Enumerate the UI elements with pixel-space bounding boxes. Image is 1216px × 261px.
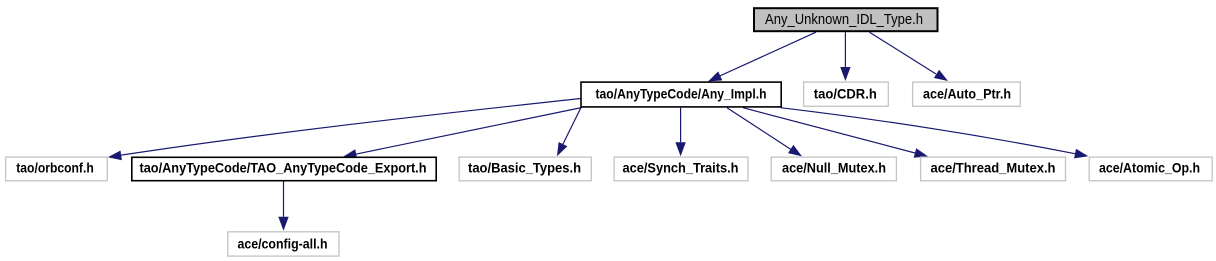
node ace/Auto_Ptr.h xyxy=(913,82,1021,106)
svg-text:tao/Basic_Types.h: tao/Basic_Types.h xyxy=(468,160,581,176)
svg-text:ace/Auto_Ptr.h: ace/Auto_Ptr.h xyxy=(923,86,1011,102)
node tao/AnyTypeCode/Any_Impl.h xyxy=(581,82,781,107)
svg-text:tao/AnyTypeCode/TAO_AnyTypeCod: tao/AnyTypeCode/TAO_AnyTypeCode_Export.h xyxy=(140,160,427,176)
svg-text:tao/orbconf.h: tao/orbconf.h xyxy=(16,160,94,176)
svg-text:tao/CDR.h: tao/CDR.h xyxy=(814,86,877,102)
wire edge Any_Impl to ace/Synch_Traits.h xyxy=(680,108,682,143)
node ace/Null_Mutex.h xyxy=(771,157,896,181)
node ace/Synch_Traits.h xyxy=(614,157,748,181)
svg-text:ace/config-all.h: ace/config-all.h xyxy=(238,235,328,251)
node ace/config-all.h xyxy=(228,232,339,256)
wire edge Any_Impl to ace/Atomic_Op.h xyxy=(781,108,1076,154)
svg-text:Any_Unknown_IDL_Type.h: Any_Unknown_IDL_Type.h xyxy=(765,11,923,28)
node tao/AnyTypeCode/TAO_AnyTypeCode_Export.h xyxy=(132,157,436,180)
svg-text:ace/Atomic_Op.h: ace/Atomic_Op.h xyxy=(1099,160,1200,176)
svg-text:ace/Synch_Traits.h: ace/Synch_Traits.h xyxy=(623,160,739,176)
wire edge top to tao/CDR.h xyxy=(844,32,846,67)
wire edge Any_Impl to ace/Null_Mutex.h xyxy=(727,108,791,150)
svg-text:ace/Null_Mutex.h: ace/Null_Mutex.h xyxy=(782,160,886,176)
svg-text:tao/AnyTypeCode/Any_Impl.h: tao/AnyTypeCode/Any_Impl.h xyxy=(596,86,767,102)
node tao/CDR.h xyxy=(804,82,889,106)
wire edge top to tao/AnyTypeCode/Any_Impl.h xyxy=(712,32,816,79)
wire edge Export to ace/config-all.h xyxy=(283,181,285,217)
wire edge Any_Impl to TAO_AnyTypeCode_Export.h xyxy=(355,108,582,155)
node Any_Unknown_IDL_Type.h xyxy=(754,8,938,31)
node tao/orbconf.h xyxy=(6,157,108,181)
wire edge Any_Impl to ace/Thread_Mutex.h xyxy=(743,108,915,153)
wire edge Any_Impl to tao/orbconf.h xyxy=(121,99,581,156)
wire edge top to ace/Auto_Ptr.h xyxy=(870,32,937,74)
svg-text:ace/Thread_Mutex.h: ace/Thread_Mutex.h xyxy=(931,160,1056,176)
node tao/Basic_Types.h xyxy=(459,157,591,181)
node ace/Atomic_Op.h xyxy=(1089,157,1212,181)
node ace/Thread_Mutex.h xyxy=(921,157,1066,181)
wire edge Any_Impl to tao/Basic_Types.h xyxy=(562,108,581,147)
